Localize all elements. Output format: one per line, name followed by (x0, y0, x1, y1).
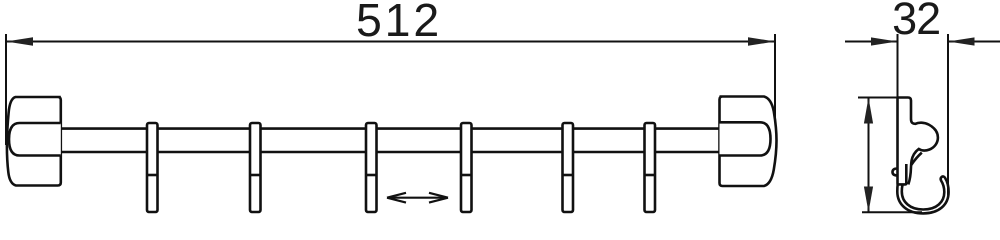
rail bar bottom edge (61, 151, 720, 154)
extension line left 512 (5, 34, 7, 145)
arrowhead left 512 (6, 37, 33, 46)
left end bracket outer (7, 97, 61, 186)
dimension line 512 (6, 41, 775, 43)
height dim bottom extension (862, 211, 922, 213)
hook slider 3 (366, 123, 377, 212)
side profile J-hook (897, 176, 948, 213)
rail bar top edge (61, 127, 720, 130)
right end bracket outer (720, 97, 777, 187)
arrowhead right 512 (748, 37, 775, 46)
arrowhead 32 left (871, 37, 898, 45)
slide direction double arrow (387, 193, 448, 203)
hook slider 1 (147, 123, 158, 212)
dimension line 32 right segment (948, 41, 1000, 43)
dimension line 32 left segment (845, 41, 898, 43)
right end cap D-plug (720, 122, 771, 155)
hook slider 4 (461, 123, 472, 212)
svg-text:32: 32 (892, 0, 940, 44)
height dim top extension (858, 97, 898, 99)
side profile small left lug (893, 169, 898, 176)
hook slider 2 (250, 123, 261, 212)
hook slider 5 (563, 123, 574, 212)
height dim arrow up (864, 98, 873, 124)
arrowhead 32 right (948, 37, 975, 45)
side profile top edge and knob bump (898, 98, 938, 185)
extension line 32 right (947, 34, 949, 195)
hook slider 6 (645, 123, 656, 212)
side profile wall plate (898, 98, 907, 185)
side view height dimension line (858, 98, 922, 213)
svg-text:512: 512 (356, 0, 442, 46)
height dim arrow down (864, 187, 873, 213)
extension line 32 left (897, 34, 899, 97)
side profile fold crescent (911, 153, 922, 165)
extension line right 512 (774, 34, 776, 135)
left end cap D-plug (9, 123, 61, 156)
